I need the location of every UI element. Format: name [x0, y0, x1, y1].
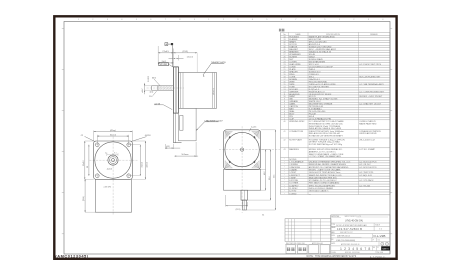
svg-text:1/1: 1/1	[378, 240, 380, 242]
svg-text:3: 3	[368, 19, 369, 21]
svg-text:100% HI-POT TEST AC500V 1min: 100% HI-POT TEST AC500V 1min	[309, 171, 341, 174]
svg-text:(42±0.5): (42±0.5)	[213, 88, 215, 95]
svg-text:43: 43	[284, 149, 286, 151]
svg-text:TYPE: TYPE	[331, 224, 335, 226]
svg-text:2-M3 DP6: 2-M3 DP6	[104, 187, 112, 189]
svg-text:4-2. AQL 0.65: 4-2. AQL 0.65	[359, 174, 372, 177]
svg-text:(13.5): (13.5)	[236, 209, 241, 211]
svg-text:21.4: 21.4	[149, 96, 152, 98]
svg-text:M2.5: M2.5	[152, 78, 156, 80]
svg-text:1: 1	[339, 19, 340, 21]
svg-text:4-2. TAB TERMINAL ASSY: 4-2. TAB TERMINAL ASSY	[359, 83, 384, 86]
svg-text:MARK PAINT RED: MARK PAINT RED	[359, 122, 377, 125]
svg-text:7: 7	[295, 19, 296, 21]
svg-text:UNIPOLAR DRIVE: UNIPOLAR DRIVE	[359, 132, 377, 135]
svg-text:4-2. BOX 100 PCS: 4-2. BOX 100 PCS	[359, 167, 377, 169]
svg-text:REMOVE ALL BURRS / SHARP EDGES: REMOVE ALL BURRS / SHARP EDGES	[309, 163, 347, 166]
svg-text:(4.5): (4.5)	[166, 146, 170, 148]
svg-text:1: 1	[78, 19, 79, 21]
svg-text:SPEC SV-205-010 APPLIES: SPEC SV-205-010 APPLIES	[309, 184, 336, 187]
svg-text:40: 40	[284, 121, 286, 123]
svg-text:1: 1	[382, 244, 383, 246]
svg-text:35±0.2: 35±0.2	[83, 161, 85, 166]
svg-text:ROTATION CW VIEW FROM SHAFT: ROTATION CW VIEW FROM SHAFT	[309, 135, 344, 138]
svg-text:X1: X1	[377, 247, 379, 249]
svg-text:8: 8	[179, 19, 180, 21]
svg-text:4-2. LEAD SET UL1007: 4-2. LEAD SET UL1007	[359, 103, 382, 106]
svg-text:41: 41	[284, 131, 286, 133]
svg-text:JIS-C-4003 CL-E: JIS-C-4003 CL-E	[359, 139, 375, 141]
svg-text:MODEL + DATE CODE ON LABEL: MODEL + DATE CODE ON LABEL	[309, 168, 342, 171]
svg-text:EDP NO. 547-52500: EDP NO. 547-52500	[345, 252, 360, 254]
svg-text:SANYO: SANYO	[382, 248, 389, 251]
svg-text:3: 3	[237, 19, 238, 21]
svg-text:1: 1	[208, 19, 209, 21]
svg-text:4 M8 (200-2000-00000): 4 M8 (200-2000-00000)	[336, 240, 355, 242]
svg-text:DWG: DWG	[331, 235, 334, 237]
svg-text:4: 4	[382, 19, 383, 21]
svg-text:3: 3	[348, 247, 350, 251]
svg-text:1: 1	[340, 247, 342, 251]
svg-text:APPROVED 2004-08-10: APPROVED 2004-08-10	[341, 243, 360, 246]
svg-text:STORAGE -20 TO +60 DEG C: STORAGE -20 TO +60 DEG C	[309, 179, 337, 182]
svg-text:CONNECTION: CONNECTION	[289, 131, 303, 133]
svg-text:ANTIRUST OIL COAT AFTER MACHIN: ANTIRUST OIL COAT AFTER MACHINING	[309, 166, 349, 169]
svg-text:2: 2	[223, 19, 224, 21]
svg-text:42±0.5: 42±0.5	[147, 162, 149, 167]
svg-text:SEA / AIR PACKING PER STD: SEA / AIR PACKING PER STD	[309, 176, 338, 179]
svg-text:4: 4	[352, 247, 354, 251]
svg-text:42: 42	[284, 139, 286, 141]
svg-text:4-2. CONN HOUSING SET: 4-2. CONN HOUSING SET	[359, 91, 385, 93]
svg-text:6: 6	[360, 247, 362, 251]
svg-text:4 . 7 . PL(1)4 . 4 .: 4 . 7 . PL(1)4 . 4 .	[370, 256, 386, 258]
svg-text:8: 8	[368, 247, 370, 251]
svg-text:C2: C2	[81, 135, 83, 137]
svg-text:LOT NO. STAMP: LOT NO. STAMP	[359, 148, 375, 151]
svg-text:ø5h7: ø5h7	[142, 88, 144, 92]
svg-text:PER SANYO DENKI STANDARD: PER SANYO DENKI STANDARD	[309, 182, 340, 185]
svg-text:TYPE 2004: TYPE 2004	[375, 252, 383, 254]
svg-text:4-2. SV-205: 4-2. SV-205	[359, 185, 371, 187]
svg-text:ROTOR INERTIA 56g-cm2 WT 240g: ROTOR INERTIA 56g-cm2 WT 240g	[309, 143, 342, 146]
svg-text:31±0.2: 31±0.2	[142, 162, 144, 167]
svg-text:(2.5): (2.5)	[150, 92, 154, 94]
svg-text:INSULATION CLASS E JIS-C-4003: INSULATION CLASS E JIS-C-4003	[309, 127, 342, 130]
svg-text:74.5: 74.5	[274, 175, 276, 178]
svg-text:MARKING: MARKING	[289, 148, 299, 151]
svg-text:10.APPLY: 10.APPLY	[289, 184, 299, 187]
svg-text:4-ø3.4: 4-ø3.4	[107, 168, 112, 170]
svg-text:6: 6	[150, 19, 151, 21]
svg-text:4: 4	[252, 19, 253, 21]
svg-text:31: 31	[87, 166, 89, 168]
svg-text:DC1.8° 42 STEP MOTOR UNIPOLAR: DC1.8° 42 STEP MOTOR UNIPOLAR	[336, 224, 367, 227]
svg-text:2-ø4.5: 2-ø4.5	[251, 127, 256, 129]
svg-text:50.5max: 50.5max	[182, 154, 189, 156]
svg-text:40.3: 40.3	[264, 172, 266, 175]
svg-text:4: 4	[121, 19, 122, 21]
svg-text:2: 2	[386, 244, 387, 246]
svg-text:8: 8	[310, 19, 311, 21]
svg-text:31±0.2: 31±0.2	[110, 135, 117, 137]
svg-text:4-2. STD PACK: 4-2. STD PACK	[359, 179, 374, 182]
svg-text:SAMPLING INSPECTION AQL 0.65: SAMPLING INSPECTION AQL 0.65	[309, 174, 343, 177]
svg-text:No: No	[283, 34, 285, 36]
svg-text:5: 5	[356, 247, 358, 251]
svg-text:(23.5): (23.5)	[182, 51, 188, 53]
svg-text:2: 2	[353, 19, 354, 21]
svg-text:7: 7	[165, 19, 166, 21]
svg-text:(AMC0123045): (AMC0123045)	[55, 253, 88, 258]
svg-text:DSGN: DSGN	[331, 252, 335, 254]
svg-text:3: 3	[107, 19, 108, 21]
svg-text:LOT NO. STAMP ON NAMEPLATE: LOT NO. STAMP ON NAMEPLATE	[309, 155, 342, 158]
svg-text:SUS303 + S45C ZN SET: SUS303 + S45C ZN SET	[359, 96, 383, 98]
svg-text:1.5±0.2: 1.5±0.2	[187, 56, 193, 58]
svg-text:(42sq.): (42sq.)	[110, 130, 117, 132]
svg-text:O-L-V2B: O-L-V2B	[373, 234, 385, 238]
svg-text:SUS+ZN PLATED SET: SUS+ZN PLATED SET	[359, 75, 381, 78]
svg-text:7: 7	[364, 247, 366, 251]
svg-text:4.LABEL: 4.LABEL	[289, 168, 298, 171]
svg-text:50.4: 50.4	[269, 177, 271, 180]
svg-text:NOTE PLATE: NOTE PLATE	[289, 138, 302, 141]
svg-text:2: 2	[92, 19, 93, 21]
svg-text:JIS B 0401 CLASS m: JIS B 0401 CLASS m	[309, 190, 329, 193]
svg-text:5: 5	[136, 19, 137, 21]
svg-text:27±0.5: 27±0.5	[162, 51, 169, 53]
svg-text:13.END: 13.END	[289, 193, 297, 195]
svg-text:4-2. P-BOLT SET 2PCS: 4-2. P-BOLT SET 2PCS	[359, 64, 381, 66]
svg-text:9: 9	[324, 19, 325, 21]
svg-text:MTG REF: MTG REF	[160, 64, 167, 66]
svg-text:6: 6	[281, 19, 282, 21]
svg-text:9: 9	[194, 19, 195, 21]
svg-text:NOTE : THIS DRAWING APPROVED B: NOTE : THIS DRAWING APPROVED BY E-SYS	[307, 255, 357, 258]
svg-text:WINDING SPEC: WINDING SPEC	[289, 121, 305, 123]
svg-text:1.TOLERANCE: 1.TOLERANCE	[289, 161, 304, 164]
svg-text:(YM1 40-GM O4): (YM1 40-GM O4)	[345, 221, 363, 223]
svg-text:103-547-52500 B: 103-547-52500 B	[337, 227, 362, 231]
svg-text:3.PACKING: 3.PACKING	[289, 166, 300, 169]
svg-text:2: 2	[344, 247, 346, 251]
svg-text:SPECIFICATION: SPECIFICATION	[326, 33, 340, 36]
svg-text:5: 5	[266, 19, 267, 21]
svg-text:---: ---	[309, 193, 311, 195]
svg-text:NAME: NAME	[295, 33, 301, 36]
svg-text:5-0.012: 5-0.012	[148, 76, 150, 82]
svg-text:REMARK: REMARK	[370, 33, 378, 36]
svg-text:(33.4): (33.4)	[83, 196, 85, 201]
